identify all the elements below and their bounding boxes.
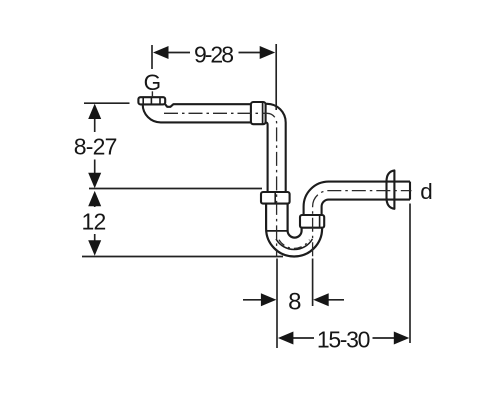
extension line below outlet stub end xyxy=(409,204,411,344)
centerline arc in trap bend xyxy=(279,240,310,249)
centerline: inlet tube, elbow, vertical pipe down through trap xyxy=(164,113,277,256)
extension line below trap inlet centerline xyxy=(276,259,278,349)
svg-text:G: G xyxy=(144,70,162,95)
union flange G (flat nut bar) xyxy=(138,97,165,104)
elbow to vertical pipe xyxy=(266,104,286,192)
svg-text:9-28: 9-28 xyxy=(194,41,233,67)
centerline: trap outlet leg, elbow, outlet pipe xyxy=(313,191,412,257)
extension line at trap bottom level xyxy=(82,256,283,258)
dimension 15-30 (bottom) xyxy=(292,337,396,339)
inlet tube with G union (top-left bend) xyxy=(143,104,251,122)
dimension 8-27 (left upper) xyxy=(94,117,96,175)
dimension 8 (bottom, between trap legs) xyxy=(243,299,344,301)
compression nut N1 (top elbow) xyxy=(251,102,266,124)
dimension 12 (left lower) xyxy=(94,205,96,243)
wall flange (rosette) xyxy=(387,170,395,208)
svg-text:8: 8 xyxy=(288,288,301,315)
svg-text:8-27: 8-27 xyxy=(74,134,117,160)
centerline tick above G flange xyxy=(151,91,153,97)
extension line at G sealing level xyxy=(84,102,130,104)
extension line at trap inlet nut level xyxy=(89,188,262,190)
outlet elbow and horizontal outlet pipe xyxy=(304,182,410,215)
compression nut N2 (trap inlet) xyxy=(261,192,290,204)
extension line below trap outlet centerline xyxy=(312,259,314,307)
svg-text:12: 12 xyxy=(82,209,106,235)
trap inner wall arc xyxy=(276,239,312,250)
trap joint seam line xyxy=(266,230,288,232)
svg-text:15-30: 15-30 xyxy=(317,326,370,352)
svg-text:d: d xyxy=(420,179,433,204)
P-trap U-bend body xyxy=(266,204,322,257)
dimension 9-28 (top) xyxy=(152,44,276,110)
compression nut N3 (trap outlet) xyxy=(300,215,324,228)
